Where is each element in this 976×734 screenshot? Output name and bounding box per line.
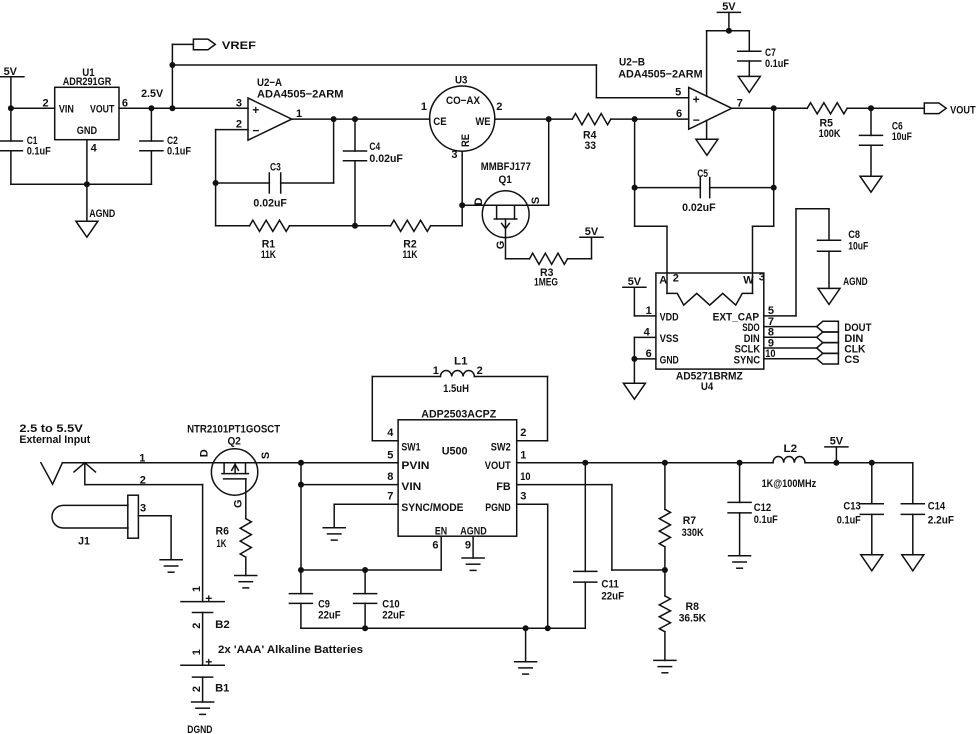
svg-text:W: W [743,275,754,287]
svg-text:1: 1 [191,649,203,655]
svg-text:G: G [233,499,245,508]
svg-text:1: 1 [191,586,203,592]
svg-text:4: 4 [387,427,394,439]
svg-text:S: S [530,197,542,204]
svg-text:330K: 330K [682,527,704,539]
svg-text:ADR291GR: ADR291GR [63,76,112,88]
svg-text:VREF: VREF [222,40,256,52]
svg-text:2.5V: 2.5V [141,88,164,100]
svg-text:+: + [252,103,259,117]
svg-text:22uF: 22uF [318,610,341,622]
svg-text:1K@100MHz: 1K@100MHz [762,478,817,490]
svg-text:8: 8 [387,471,393,483]
svg-text:U3: U3 [455,74,467,86]
svg-text:5V: 5V [722,1,736,13]
svg-text:1: 1 [646,305,652,317]
svg-text:ADA4505−2ARM: ADA4505−2ARM [257,89,344,101]
svg-text:CS: CS [844,354,859,366]
svg-text:NTR2101PT1GOSCT: NTR2101PT1GOSCT [187,424,280,436]
svg-text:B1: B1 [215,683,229,695]
svg-text:SW2: SW2 [491,441,511,453]
svg-text:+: + [693,93,700,107]
svg-text:GND: GND [660,354,679,366]
svg-text:10: 10 [765,348,775,360]
svg-text:VIN: VIN [401,481,421,493]
svg-text:10: 10 [520,471,530,483]
svg-text:R6: R6 [216,526,229,538]
svg-text:2: 2 [140,475,146,487]
svg-text:1: 1 [296,108,302,120]
svg-text:1: 1 [433,365,439,377]
svg-text:ADA4505−2ARM: ADA4505−2ARM [618,69,702,81]
svg-text:0.1uF: 0.1uF [27,146,51,158]
svg-text:DGND: DGND [187,724,212,734]
svg-text:6: 6 [432,540,438,552]
svg-text:10uF: 10uF [892,131,912,143]
svg-text:AGND: AGND [843,276,868,288]
svg-text:R8: R8 [686,601,699,613]
svg-text:C13: C13 [843,501,860,513]
svg-text:C4: C4 [369,141,380,153]
svg-text:AGND: AGND [460,525,486,537]
svg-text:C12: C12 [754,502,771,514]
svg-text:WE: WE [476,116,491,128]
svg-text:U2−B: U2−B [619,56,645,68]
svg-text:2: 2 [191,623,203,629]
svg-text:4: 4 [91,143,98,155]
svg-text:11K: 11K [403,249,418,261]
svg-text:EN: EN [435,525,447,537]
svg-text:SYNC/MODE: SYNC/MODE [401,502,463,514]
svg-text:CE: CE [433,116,446,128]
svg-text:5V: 5V [585,226,599,238]
svg-text:1.5uH: 1.5uH [443,383,469,395]
svg-text:0.02uF: 0.02uF [682,202,716,214]
svg-text:0.02uF: 0.02uF [253,198,287,210]
svg-text:A: A [659,275,667,287]
svg-text:VOUT: VOUT [485,460,511,472]
svg-text:RE: RE [460,134,472,147]
svg-text:C9: C9 [318,598,330,610]
svg-text:−: − [252,123,259,137]
svg-text:2: 2 [236,119,242,131]
svg-text:B2: B2 [215,619,230,631]
svg-text:R7: R7 [683,515,696,527]
svg-text:L2: L2 [784,443,798,455]
svg-text:PGND: PGND [485,502,510,514]
svg-text:U500: U500 [442,446,468,458]
svg-text:2: 2 [520,427,526,439]
svg-text:VOUT: VOUT [950,104,976,116]
svg-text:U4: U4 [701,381,714,393]
svg-text:36.5K: 36.5K [679,613,706,625]
svg-text:C7: C7 [765,47,776,59]
svg-text:2.2uF: 2.2uF [928,515,954,527]
svg-text:SW1: SW1 [401,441,420,453]
svg-text:3: 3 [140,503,146,515]
svg-text:2: 2 [496,101,502,113]
svg-text:Q2: Q2 [228,436,241,448]
svg-text:Q1: Q1 [499,174,512,186]
svg-text:3: 3 [451,149,457,161]
svg-text:VIN: VIN [59,103,74,115]
svg-text:2: 2 [477,365,483,377]
svg-text:C3: C3 [270,162,281,174]
svg-text:U2−A: U2−A [257,77,282,89]
svg-text:+: + [205,592,212,606]
svg-text:6: 6 [122,98,128,110]
svg-text:3: 3 [759,272,765,284]
svg-text:+: + [205,655,212,669]
svg-text:0.1uF: 0.1uF [837,515,861,527]
svg-text:1: 1 [520,449,526,461]
svg-text:0.02uF: 0.02uF [369,153,403,165]
svg-text:C11: C11 [601,579,618,591]
svg-text:C14: C14 [928,501,946,513]
svg-text:6: 6 [676,108,682,120]
svg-text:G: G [495,241,507,250]
svg-text:1K: 1K [216,538,226,550]
svg-text:4: 4 [644,327,651,339]
svg-text:5V: 5V [628,276,642,288]
svg-text:2: 2 [42,98,48,110]
svg-text:S: S [260,452,272,459]
svg-text:22uF: 22uF [382,610,405,622]
svg-text:100K: 100K [819,128,841,140]
svg-text:5V: 5V [830,436,844,448]
svg-text:D: D [198,449,210,457]
svg-text:VDD: VDD [660,311,679,323]
svg-text:3: 3 [520,491,526,503]
svg-text:3: 3 [236,97,242,109]
svg-text:1: 1 [139,452,145,464]
svg-text:J1: J1 [78,535,90,547]
svg-text:2: 2 [673,273,679,285]
svg-text:VOUT: VOUT [90,103,115,115]
svg-text:2: 2 [191,686,203,692]
svg-text:C10: C10 [382,598,399,610]
svg-text:6: 6 [646,348,652,360]
svg-text:2x 'AAA' Alkaline Batteries: 2x 'AAA' Alkaline Batteries [218,644,363,656]
svg-text:10uF: 10uF [848,241,868,253]
svg-text:11K: 11K [261,249,276,261]
svg-text:1: 1 [421,101,427,113]
svg-text:C8: C8 [848,229,860,241]
svg-text:0.1uF: 0.1uF [765,58,789,70]
svg-text:External Input: External Input [19,434,90,446]
svg-text:7: 7 [387,491,393,503]
svg-text:D: D [473,197,485,205]
svg-text:7: 7 [737,97,743,109]
svg-text:L1: L1 [454,356,468,368]
svg-text:VSS: VSS [660,333,679,345]
svg-text:PVIN: PVIN [401,460,429,472]
svg-text:5V: 5V [4,66,18,78]
svg-text:5: 5 [387,449,393,461]
svg-text:1MEG: 1MEG [534,277,558,289]
svg-text:GND: GND [77,125,97,137]
svg-text:FB: FB [496,481,510,493]
svg-text:ADP2503ACPZ: ADP2503ACPZ [421,409,496,421]
svg-text:9: 9 [465,540,471,552]
svg-text:0.1uF: 0.1uF [754,514,778,526]
svg-text:0.1uF: 0.1uF [167,146,191,158]
svg-text:SYNC: SYNC [734,354,761,366]
svg-text:C5: C5 [697,168,708,180]
svg-text:AGND: AGND [89,208,115,220]
svg-text:5: 5 [675,87,681,99]
svg-text:33: 33 [585,140,597,152]
svg-text:CO−AX: CO−AX [446,95,481,107]
svg-text:22uF: 22uF [601,590,624,602]
svg-text:−: − [693,113,700,127]
svg-text:MMBFJ177: MMBFJ177 [481,161,531,173]
